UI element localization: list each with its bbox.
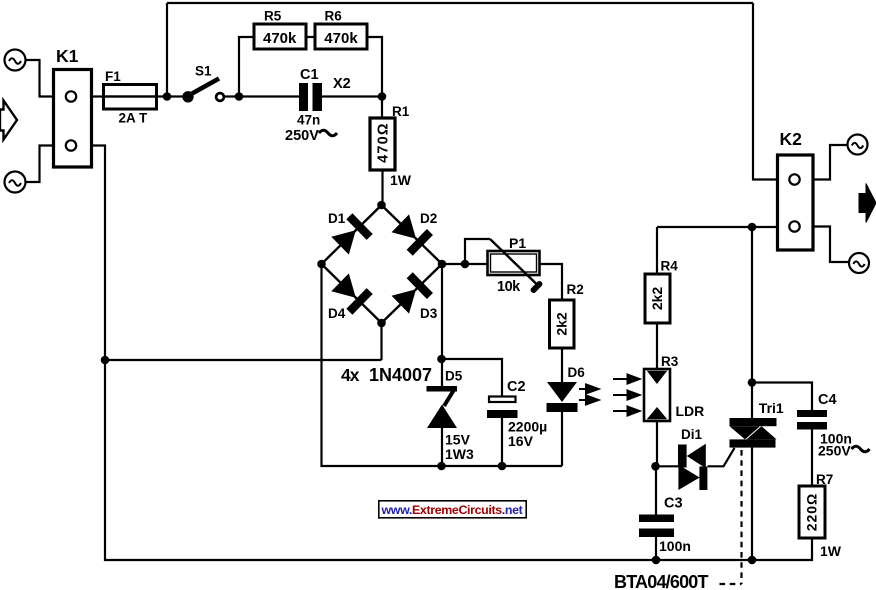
- svg-text:47n: 47n: [297, 113, 320, 128]
- svg-text:4x: 4x: [341, 365, 360, 385]
- svg-text:16V: 16V: [508, 433, 534, 449]
- svg-text:C2: C2: [507, 379, 526, 395]
- svg-text:C3: C3: [664, 496, 683, 512]
- svg-text:470Ω: 470Ω: [376, 122, 392, 163]
- svg-text:D3: D3: [420, 306, 438, 321]
- svg-text:1W: 1W: [390, 172, 412, 188]
- svg-text:470k: 470k: [263, 30, 297, 47]
- svg-text:250V: 250V: [818, 443, 851, 459]
- svg-text:1W3: 1W3: [445, 446, 474, 462]
- svg-text:C1: C1: [300, 67, 319, 83]
- svg-text:Di1: Di1: [681, 427, 703, 442]
- svg-text:K1: K1: [56, 46, 79, 66]
- svg-text:100n: 100n: [659, 538, 691, 554]
- svg-text:1W: 1W: [820, 543, 842, 559]
- svg-text:R4: R4: [661, 259, 679, 274]
- svg-text:X2: X2: [333, 76, 351, 92]
- svg-text:R5: R5: [264, 9, 282, 24]
- svg-text:2A T: 2A T: [119, 111, 149, 126]
- svg-text:BTA04/600T: BTA04/600T: [614, 572, 709, 590]
- svg-text:10k: 10k: [497, 279, 521, 295]
- svg-text:R2: R2: [567, 282, 584, 297]
- svg-text:D4: D4: [328, 306, 346, 321]
- svg-text:P1: P1: [509, 235, 526, 251]
- svg-text:D6: D6: [568, 365, 586, 380]
- svg-text:1N4007: 1N4007: [369, 365, 432, 385]
- svg-text:D2: D2: [420, 211, 437, 226]
- svg-text:F1: F1: [105, 69, 121, 84]
- svg-text:Tri1: Tri1: [759, 400, 784, 416]
- svg-text:R6: R6: [325, 9, 343, 24]
- svg-text:C4: C4: [818, 392, 837, 408]
- svg-text:R7: R7: [816, 472, 833, 487]
- svg-text:470k: 470k: [324, 30, 358, 47]
- svg-text:D5: D5: [445, 369, 463, 384]
- svg-text:220Ω: 220Ω: [804, 493, 820, 532]
- svg-text:R3: R3: [661, 354, 679, 369]
- svg-text:www.ExtremeCircuits.net: www.ExtremeCircuits.net: [381, 503, 523, 517]
- svg-text:250V: 250V: [285, 128, 319, 144]
- svg-text:R1: R1: [392, 104, 410, 119]
- svg-text:2k2: 2k2: [649, 287, 665, 311]
- svg-text:S1: S1: [195, 64, 212, 79]
- svg-text:K2: K2: [780, 129, 803, 149]
- svg-text:2k2: 2k2: [554, 312, 570, 336]
- svg-text:D1: D1: [328, 211, 346, 226]
- svg-text:LDR: LDR: [676, 403, 705, 419]
